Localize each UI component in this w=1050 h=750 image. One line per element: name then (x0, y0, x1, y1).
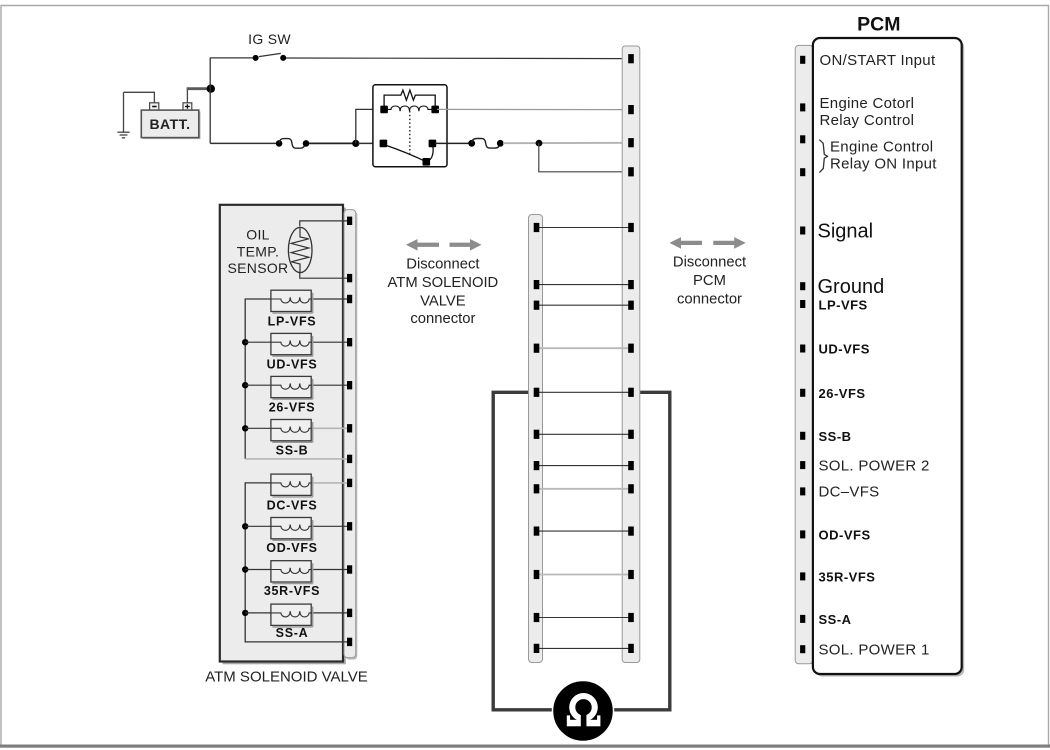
wire rung 11 (539, 617, 629, 619)
svg-text:SS-A: SS-A (819, 612, 852, 627)
svg-text:SENSOR: SENSOR (228, 260, 289, 276)
label oil temp sensor (228, 227, 289, 277)
wire bus to 26-VFS (245, 384, 271, 386)
svg-text:LP-VFS: LP-VFS (819, 297, 868, 312)
svg-text:Engine Cotorl: Engine Cotorl (820, 95, 915, 112)
svg-text:SS-A: SS-A (276, 626, 309, 640)
svg-text:26-VFS: 26-VFS (819, 386, 866, 401)
wire rung 7 (539, 465, 629, 467)
svg-text:Relay ON Input: Relay ON Input (830, 156, 937, 173)
node B relay input junction (352, 140, 359, 147)
wire solenoid common bus top group (245, 299, 271, 459)
brace engine control relay on input (819, 140, 827, 173)
svg-text:UD-VFS: UD-VFS (267, 358, 318, 372)
node bus dot OD (242, 523, 248, 529)
wire 26-VFS to pin (311, 384, 347, 386)
node bus dot 26 (242, 382, 248, 388)
svg-text:PCM: PCM (693, 273, 726, 289)
wire rung 8 (grey) (539, 488, 629, 490)
ohmmeter loop thick wire (493, 392, 670, 710)
wire bus to SS-A (245, 612, 271, 614)
wire rung 6 (539, 433, 629, 435)
wire thermistor top to pin (300, 221, 347, 227)
wire rung 1 (539, 227, 629, 229)
wire fuse F2 to harness connector (grey) (503, 142, 627, 144)
svg-text:SOL. POWER 2: SOL. POWER 2 (819, 457, 930, 474)
connector strip PCM (795, 45, 813, 663)
connector strip ATM solenoid valve (344, 210, 357, 660)
solenoid SS-B (271, 420, 313, 458)
svg-text:Disconnect: Disconnect (406, 256, 479, 272)
svg-text:Ground: Ground (818, 276, 885, 298)
arrows disconnect PCM (670, 237, 746, 249)
svg-text:35R-VFS: 35R-VFS (264, 584, 320, 598)
svg-text:UD-VFS: UD-VFS (819, 342, 870, 357)
wire relay contact to fuse F2 (435, 142, 469, 144)
svg-text:DC-VFS: DC-VFS (267, 499, 318, 513)
node C power branch junction (536, 140, 543, 147)
wire 35R-VFS to pin (311, 569, 347, 571)
svg-text:35R-VFS: 35R-VFS (819, 570, 876, 585)
connector strip harness PCM side (622, 46, 640, 663)
solenoid SS-A (271, 604, 313, 640)
svg-text:Disconnect: Disconnect (673, 254, 746, 270)
label disconnect ATM (388, 256, 499, 327)
ATM solenoid valve box (220, 205, 346, 665)
wire battery to fuse F1 (210, 142, 276, 144)
wire battery negative to ground (124, 92, 155, 103)
wire bus to 35R-VFS (245, 569, 271, 571)
wire junction into relay contact (358, 142, 381, 144)
wire fuse F1 to relay junction (309, 142, 353, 144)
relay coil (384, 106, 435, 111)
relay plunger dotted line (409, 111, 411, 154)
svg-text:IG SW: IG SW (248, 31, 291, 47)
wire branch down to second power pin (539, 143, 627, 172)
svg-text:OIL: OIL (246, 227, 269, 243)
wire rung 5 (539, 391, 629, 393)
wire LP-VFS to pin (311, 298, 347, 300)
wire solenoid common bus bottom group (245, 483, 347, 642)
PCM box (813, 38, 964, 677)
fuse F2 (468, 139, 503, 149)
svg-text:DC–VFS: DC–VFS (819, 484, 880, 501)
solenoid LP-VFS (268, 290, 317, 328)
wire junction up to relay coil (356, 109, 381, 143)
wire rung 12 (539, 647, 629, 649)
node bus dot 35R (242, 566, 248, 572)
svg-text:BATT.: BATT. (149, 116, 190, 132)
battery BATT. (141, 103, 200, 139)
svg-text:connector: connector (410, 311, 475, 327)
ohmmeter Ω (553, 681, 614, 742)
svg-text:SOL. POWER 1: SOL. POWER 1 (819, 641, 930, 658)
relay (engine control relay) box (373, 85, 447, 167)
wire rung 10 (grey) (539, 574, 629, 576)
svg-text:TEMP.: TEMP. (237, 243, 279, 259)
node bus dot SS-A (242, 610, 248, 616)
wire IG SW to harness connector (286, 57, 627, 60)
wire bus to SS-B (245, 427, 271, 429)
svg-text:Engine Control: Engine Control (830, 139, 933, 156)
svg-text:OD-VFS: OD-VFS (266, 541, 317, 555)
svg-text:26-VFS: 26-VFS (269, 401, 316, 415)
node A battery junction (207, 85, 215, 93)
svg-text:VALVE: VALVE (420, 294, 466, 310)
solenoid OD-VFS (266, 518, 317, 556)
solenoid DC-VFS (267, 474, 318, 513)
label disconnect PCM (673, 254, 746, 307)
switch IG SW (210, 31, 291, 61)
solenoid UD-VFS (267, 333, 318, 371)
svg-text:PCM: PCM (857, 14, 900, 36)
wire thermistor bottom to pin (300, 273, 347, 278)
wire rung 2 (539, 284, 629, 286)
wire relay coil output to harness connector (437, 108, 627, 110)
svg-text:SS-B: SS-B (819, 429, 852, 444)
relay resistor (384, 90, 435, 108)
connector strip harness ATM side (529, 215, 543, 663)
svg-text:connector: connector (677, 291, 742, 307)
wire SS-A to pin (311, 612, 347, 614)
svg-text:ATM SOLENOID: ATM SOLENOID (388, 275, 499, 291)
node bus dot UD (242, 339, 248, 345)
pins harness ATM side connector (534, 223, 540, 653)
relay contacts (380, 140, 437, 166)
svg-text:OD-VFS: OD-VFS (819, 528, 871, 543)
svg-text:Signal: Signal (818, 221, 874, 243)
wire UD-VFS to pin (311, 341, 347, 343)
wire rung 3 (539, 304, 629, 306)
wire rung 9 (539, 530, 629, 532)
ground (117, 92, 129, 138)
solenoid 35R-VFS (264, 561, 320, 598)
solenoid 26-VFS (269, 376, 316, 414)
thermistor oil temp sensor (288, 227, 312, 272)
wire battery positive stub (186, 89, 188, 103)
pins harness PCM side connector (628, 54, 634, 653)
pins PCM connector (800, 56, 805, 653)
wire bus to UD-VFS (245, 341, 271, 343)
svg-text:LP-VFS: LP-VFS (268, 314, 317, 328)
node bus dot SS-B (242, 425, 248, 431)
wire bus to OD-VFS (245, 525, 271, 527)
svg-text:ON/START Input: ON/START Input (820, 52, 936, 69)
wire main vertical from junction (209, 58, 211, 144)
svg-text:Relay Control: Relay Control (820, 112, 915, 129)
wire DC-VFS to pin (grey) (311, 482, 347, 484)
wire rung 4 (grey) (539, 347, 629, 349)
svg-text:ATM SOLENOID VALVE: ATM SOLENOID VALVE (205, 669, 368, 686)
arrows disconnect ATM (406, 239, 482, 251)
pins ATM solenoid valve connector (347, 217, 352, 647)
wire OD-VFS to pin (311, 525, 347, 527)
wire SS-B to pin (grey) (311, 427, 347, 429)
fuse F1 (276, 139, 310, 149)
svg-text:SS-B: SS-B (276, 444, 309, 458)
